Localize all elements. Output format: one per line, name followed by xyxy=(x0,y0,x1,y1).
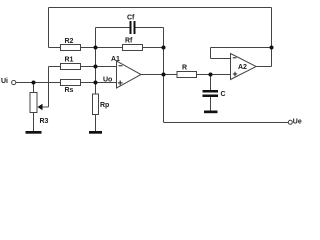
plus sign A2 xyxy=(233,72,237,76)
junction A2 feedback node xyxy=(270,46,274,50)
wire R3 top lead xyxy=(33,83,35,93)
svg-text:R1: R1 xyxy=(65,57,74,64)
wire R2 left xyxy=(49,47,61,49)
plus sign A1 xyxy=(118,81,123,86)
svg-text:A2: A2 xyxy=(238,64,247,71)
resistor Rs xyxy=(61,80,81,86)
wire A2 feedback left vertical xyxy=(210,48,212,59)
minus sign A2 xyxy=(233,57,237,59)
wire A2 inverting input xyxy=(211,58,231,60)
terminal Ui xyxy=(12,80,16,84)
junction Rs/Rp node xyxy=(94,81,98,85)
wire R3 wiper xyxy=(42,106,49,108)
wire top feedback loop xyxy=(49,7,272,9)
svg-text:Cf: Cf xyxy=(127,15,135,22)
wire Rs to A1 non-inverting input xyxy=(81,82,117,84)
svg-text:R2: R2 xyxy=(65,38,74,45)
wire left vertical of top loop xyxy=(48,8,50,48)
wire C top lead xyxy=(210,75,212,91)
capacitor C top plate xyxy=(203,90,219,93)
svg-text:Rs: Rs xyxy=(65,87,74,94)
resistor R xyxy=(177,72,197,78)
wire node vertical x95 xyxy=(95,28,97,94)
junction Ui/R3 node xyxy=(32,81,36,85)
capacitor Cf right plate xyxy=(134,21,136,34)
svg-text:R3: R3 xyxy=(40,118,49,125)
svg-text:Ui: Ui xyxy=(1,78,8,85)
resistor R1 xyxy=(61,64,81,70)
resistor Rf xyxy=(123,45,143,51)
svg-text:Rf: Rf xyxy=(125,38,133,45)
wire R3 bottom lead xyxy=(33,113,35,132)
junction R/C node xyxy=(209,73,213,77)
wire R2 to Rf xyxy=(81,47,123,49)
svg-text:A1: A1 xyxy=(111,56,120,63)
ground below Rp xyxy=(89,131,102,134)
svg-text:R: R xyxy=(182,65,187,72)
wire A2 feedback top xyxy=(211,47,272,49)
capacitor C bottom plate xyxy=(203,95,219,98)
minus sign A1 xyxy=(119,65,123,67)
terminal Ue xyxy=(288,120,292,124)
op-amp A2 xyxy=(231,54,257,80)
potentiometer R3 body xyxy=(30,93,37,113)
wire Ui input xyxy=(16,82,61,84)
junction A1 output node xyxy=(162,73,166,77)
wire C bottom lead xyxy=(210,97,212,111)
junction R1 node xyxy=(94,65,98,69)
wire Cf branch left xyxy=(96,27,130,29)
wire Rf right xyxy=(143,47,164,49)
wire bottom to Ue xyxy=(164,122,289,124)
wire wiper vertical xyxy=(48,67,50,108)
resistor R2 xyxy=(61,45,81,51)
wire vertical x163 xyxy=(163,28,165,123)
wire A2 output xyxy=(256,66,272,68)
svg-text:C: C xyxy=(221,91,226,98)
wire A1 output xyxy=(141,74,177,76)
wire Rp bottom lead xyxy=(95,115,97,132)
svg-text:Rp: Rp xyxy=(100,102,109,109)
ground below C xyxy=(204,111,218,114)
svg-text:Ue: Ue xyxy=(293,119,302,126)
capacitor Cf left plate xyxy=(130,21,132,34)
resistor Rp xyxy=(93,94,99,115)
op-amp A1 xyxy=(117,61,142,88)
wire R1 to A1 inverting input xyxy=(81,66,117,68)
R3 wiper arrowhead xyxy=(38,104,43,110)
ground below R3 xyxy=(26,131,42,134)
wire R1 left corner xyxy=(49,66,61,68)
junction R2/Rf node xyxy=(94,46,98,50)
wire R to A2 non-inverting input xyxy=(197,74,231,76)
wire Cf branch right xyxy=(136,27,164,29)
svg-text:Uo: Uo xyxy=(103,76,112,83)
junction Rf/Cf node xyxy=(162,46,166,50)
wire right vertical of top loop xyxy=(271,8,273,67)
